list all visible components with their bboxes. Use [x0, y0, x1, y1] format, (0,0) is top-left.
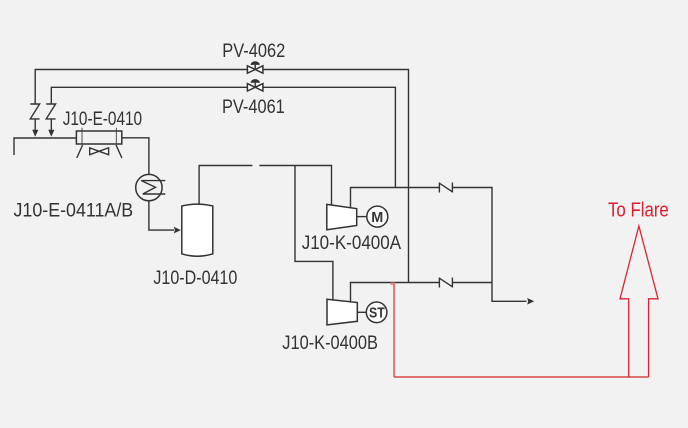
svg-text:ST: ST — [369, 305, 385, 322]
svg-text:J10-E-0410: J10-E-0410 — [63, 109, 142, 130]
svg-text:To Flare: To Flare — [608, 200, 669, 222]
svg-text:J10-D-0410: J10-D-0410 — [153, 268, 237, 289]
svg-text:J10-E-0411A/B: J10-E-0411A/B — [14, 200, 134, 221]
svg-text:PV-4061: PV-4061 — [222, 97, 285, 118]
svg-text:J10-K-0400A: J10-K-0400A — [302, 233, 402, 254]
svg-text:PV-4062: PV-4062 — [222, 41, 285, 62]
svg-text:M: M — [371, 210, 383, 226]
svg-text:J10-K-0400B: J10-K-0400B — [282, 333, 378, 354]
